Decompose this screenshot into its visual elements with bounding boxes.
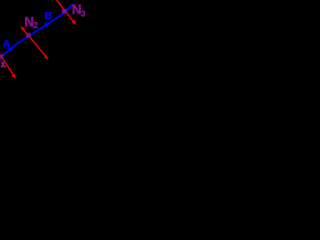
svg-text:3: 3: [81, 9, 86, 19]
svg-text:B: B: [45, 10, 53, 22]
node X1 marker: [26, 33, 30, 37]
label Sigma (glyph drawn as bars): [1, 62, 6, 68]
svg-text:2: 2: [33, 20, 38, 30]
red normal line 1 (double arrow): [22, 28, 47, 58]
blue ray arrowhead 2: [44, 22, 50, 27]
red normal line 0: [2, 58, 14, 76]
node X2 marker: [62, 9, 66, 13]
node X0 marker: [0, 55, 3, 59]
wire blue ray polyline: [0, 4, 73, 58]
red normal line 2: [57, 0, 75, 23]
background: [0, 0, 90, 90]
blue ray arrowhead 3 end: [68, 4, 73, 9]
blue ray arrowhead 1: [8, 46, 14, 52]
svg-text:A: A: [3, 38, 11, 50]
